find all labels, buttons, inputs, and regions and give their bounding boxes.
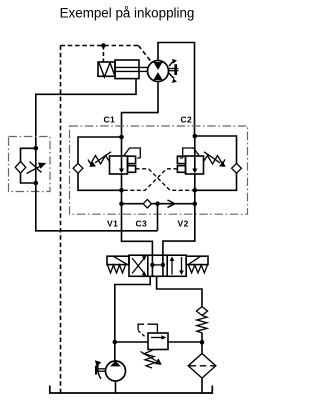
CB2 adjust arrow — [204, 152, 220, 163]
wire: restrictor mid line — [35, 148, 37, 183]
motor shaft end bar — [174, 64, 177, 75]
motor rotation arrow up — [169, 61, 174, 66]
wire: motor top port to C2 riser — [158, 43, 195, 137]
counterbalance valve CB1 body — [110, 156, 128, 174]
svg-text:C1: C1 — [104, 115, 116, 125]
DV1 centre box lines and dots — [151, 255, 153, 276]
wire: drain dashed horizontal top — [61, 45, 139, 47]
wire: right check loop — [195, 136, 237, 190]
check valve with spring (return) diamond — [196, 307, 207, 316]
CB2 external pilot (dashed, crossing) — [122, 169, 178, 191]
RV1 internal arrow — [151, 337, 163, 339]
RV1 spring — [144, 350, 155, 368]
CB2 pilot piston boxes — [177, 156, 185, 163]
wire: brake pressure line to restrictor — [36, 79, 136, 149]
tank reservoir line — [50, 386, 213, 394]
check valve CV1 diamond — [73, 163, 83, 173]
motor triangle top (filled) — [153, 62, 162, 70]
DV1 right spring — [188, 265, 207, 273]
wire: motor bottom port to C1 — [122, 82, 159, 138]
wire: left check loop — [78, 137, 122, 190]
node: bus-C3 — [155, 201, 160, 206]
bus flow arrow — [168, 200, 175, 207]
shuttle valve diamond — [143, 200, 151, 208]
relief valve RV1 body — [148, 333, 168, 350]
wire: check bypass loop (restrictor) — [21, 148, 36, 183]
node: bus-V2 — [193, 201, 198, 206]
wire: C2 main line through CB valve — [194, 136, 196, 204]
CB2 flow arrow — [194, 157, 196, 170]
node: C2 junction — [193, 134, 198, 139]
node: bus-V1 — [119, 201, 124, 206]
wire: V1 to valve port A — [122, 204, 153, 256]
CB2 internal pilot hook — [183, 148, 199, 158]
CB2 spring — [204, 156, 226, 165]
wire: P port to pump riser — [115, 276, 150, 342]
pump P1 circle — [106, 361, 126, 381]
check valve CV2 diamond — [232, 163, 242, 173]
directional valve DV1 body — [129, 255, 186, 276]
svg-text:C2: C2 — [181, 115, 193, 125]
restrictor enclosure (dash-dot box) — [9, 137, 51, 192]
node: restrictor top junction — [34, 146, 39, 151]
wire: pump outlet riser — [114, 342, 116, 361]
svg-text:V2: V2 — [178, 219, 189, 229]
CB1 external pilot (dashed, crossing) — [136, 169, 195, 191]
wire: shuttle bus V1-V2 — [122, 203, 195, 205]
node: right pilot junction — [193, 188, 198, 193]
filter element dashed — [190, 365, 215, 367]
return spring — [197, 315, 207, 333]
wire: C1 main line through CB valve — [121, 137, 123, 204]
brake cylinder barrel — [115, 60, 139, 79]
DV1 left spring — [108, 265, 126, 273]
hydraulic motor M1 circle — [148, 61, 169, 82]
check valve (restrictor bypass) diamond — [15, 162, 26, 174]
wire: T port to return line — [157, 276, 202, 307]
svg-text:C3: C3 — [136, 219, 148, 229]
wire: C3 drop — [157, 204, 159, 231]
DV1 left box crossed arrows — [132, 259, 144, 274]
CB1 spring — [88, 156, 110, 165]
wire: pump suction to tank — [115, 381, 117, 393]
piston rod (double line) to motor — [115, 66, 148, 68]
pump rotation arrow — [98, 365, 101, 379]
pump shaft end bar — [95, 366, 97, 375]
brake cylinder spring box — [98, 62, 115, 76]
node: left pilot junction — [119, 188, 124, 193]
wire: T to filter — [201, 378, 203, 393]
filter F1 diamond — [188, 354, 216, 379]
wire: drain dashed stub to brake spring chamber — [102, 46, 104, 63]
DV1 left solenoid — [107, 256, 129, 264]
node: C1 junction — [119, 135, 124, 140]
pump triangle (filled) — [110, 361, 121, 367]
adjustable throttle arrow — [27, 166, 41, 173]
svg-text:Exempel på inkoppling: Exempel på inkoppling — [60, 6, 195, 21]
node: filter junction — [200, 340, 205, 345]
spring (brake) — [99, 63, 115, 77]
motor rotation arrow down — [169, 73, 174, 78]
node: drain junction — [101, 43, 106, 48]
wire: restrictor to C3 line — [36, 183, 158, 231]
motor shaft double line — [169, 68, 179, 70]
CB1 pilot piston boxes — [128, 156, 136, 163]
pump shaft — [96, 368, 106, 370]
counterbalance valve CB2 body — [186, 156, 204, 174]
RV1 pilot hook — [138, 324, 157, 333]
wire: relief valve line — [115, 341, 202, 343]
node: pump outlet junction — [113, 340, 118, 345]
manifold enclosure (dash-dot box) — [70, 126, 248, 214]
DV1 right solenoid — [186, 256, 208, 264]
motor triangle bottom (filled) — [153, 72, 162, 80]
wire: V2 to valve port B — [163, 204, 195, 256]
node: restrictor bottom junction — [34, 181, 39, 186]
CB1 internal pilot hook — [124, 148, 140, 158]
DV1 right box parallel arrows — [171, 260, 173, 275]
wire: drain dashed diagonal to motor case — [138, 46, 151, 62]
CB1 adjust arrow — [95, 152, 111, 163]
svg-text:V1: V1 — [107, 219, 118, 229]
CB1 flow arrow — [121, 157, 123, 170]
RV1 adjust arrow — [141, 352, 157, 362]
wire: drain dashed vertical to tank — [60, 46, 62, 394]
wire: spring to filter junction — [201, 333, 203, 354]
